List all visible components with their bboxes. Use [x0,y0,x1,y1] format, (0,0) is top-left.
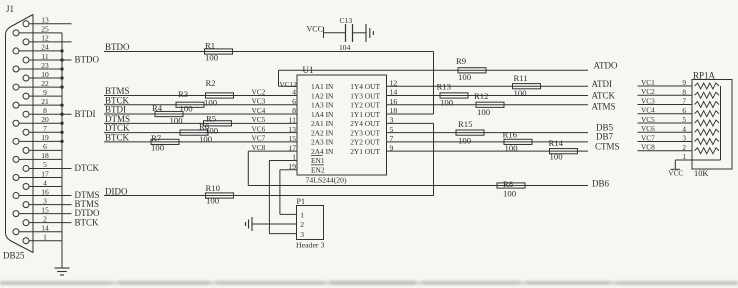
pin 16 (J1) [13,187,100,200]
resistor element 3 (RP1A) [695,102,720,108]
node ATCK [592,90,616,100]
svg-text:R14: R14 [549,138,564,148]
pin 7 (J1) [23,124,62,135]
svg-text:DIDO: DIDO [105,186,128,196]
pin number 4 (U1 left) [292,88,296,97]
label RP1A [693,71,716,81]
svg-text:100: 100 [505,143,519,153]
svg-text:15: 15 [41,205,49,214]
pin 18 (J1) [13,151,62,162]
pin text 2Y4 OUT (U1) [350,119,380,128]
net label BTCK [105,132,130,142]
header P1 body [297,206,324,240]
resistor R15 [456,130,484,135]
svg-text:ATDO: ATDO [594,61,618,71]
svg-text:100: 100 [170,116,184,126]
resistor R1 [205,49,233,54]
pin text EN1 (U1) [311,156,325,165]
junction at pin 24 [60,49,63,52]
net label VC7 [641,133,655,142]
label R14 [549,138,564,148]
svg-text:100: 100 [458,136,472,146]
svg-text:BTDO: BTDO [105,42,130,52]
svg-text:1: 1 [300,211,304,220]
node DB6 [592,179,610,189]
svg-text:100: 100 [503,189,517,199]
svg-text:VC3: VC3 [641,96,655,105]
svg-text:VC7: VC7 [641,133,655,142]
junction at pin 19 [60,140,63,143]
pin text 1Y3 OUT (U1) [350,91,380,100]
label R4 [152,103,163,113]
svg-text:13: 13 [41,16,49,25]
pin text 1A3 IN (U1) [311,101,334,110]
value 100 (R1) [205,53,219,63]
svg-text:100: 100 [458,72,472,82]
net label BTMS [105,86,130,96]
pin 4 (J1) [23,178,62,189]
resistor R8 [497,183,525,188]
resistor R2 [206,93,234,98]
pin number 11 (U1 left) [288,116,296,125]
svg-text:Header 3: Header 3 [296,240,324,249]
pin 13 (J1) [23,16,72,27]
svg-text:104: 104 [339,43,351,52]
wire BTCK to U1 [104,104,297,106]
wire RP1A pin1 to VCC [675,160,720,169]
wire 2Y1 to CTMS [387,150,589,152]
svg-text:1Y3 OUT: 1Y3 OUT [350,91,380,100]
wire 1Y2 to ATMS [387,104,589,106]
label R8 [503,179,514,189]
svg-text:R11: R11 [514,73,528,83]
svg-text:100: 100 [199,134,213,144]
connector J1 reference label [6,4,14,14]
net label VC4 [641,106,655,115]
pin 19 (J1) [13,133,62,144]
net label VC8 [641,143,655,152]
svg-text:1Y1 OUT: 1Y1 OUT [350,110,380,119]
value 100 (R13) [440,98,454,108]
junction at pin 7 [60,131,63,134]
pin number 1 (U1 left) [292,153,296,162]
wire VC5 to RP1A [638,122,693,124]
wire 1Y4 to ATDI [387,85,589,87]
svg-text:2Y3 OUT: 2Y3 OUT [350,128,380,137]
svg-text:BTDO: BTDO [75,55,100,65]
pin number 18 (U1 right) [390,106,398,115]
value 100 (R2) [204,97,218,107]
svg-text:J1: J1 [6,4,14,14]
resistor element 2 (RP1A) [695,92,720,98]
value 104 (C13) [339,43,351,52]
resistor R9 [458,68,486,73]
pin 15 (J1) [13,205,100,218]
pin text 1Y1 OUT (U1) [350,110,380,119]
resistor R13 [440,93,468,98]
svg-text:VC4: VC4 [641,106,655,115]
net label DIDO [105,186,128,196]
svg-text:VC2: VC2 [252,87,266,96]
svg-text:1A1 IN: 1A1 IN [311,82,334,91]
svg-text:4: 4 [682,124,686,133]
svg-text:R9: R9 [456,56,466,66]
value 100 (R11) [514,88,528,98]
svg-text:VC4: VC4 [252,106,266,115]
svg-text:R2: R2 [206,78,216,88]
svg-text:ATMS: ATMS [592,101,616,111]
resistor R10 [206,193,234,198]
wire V1 vertical (BTDO to 1Y1) [433,52,435,115]
wire 2Y4 to V2 [387,122,434,124]
net label BTDO [105,42,130,52]
wire VC12 rail / R9 wire to ATDO [279,69,589,71]
node DB5 [596,123,614,133]
svg-text:1Y4 OUT: 1Y4 OUT [350,82,380,91]
svg-text:5: 5 [682,115,686,124]
pin 5 (J1) [23,160,100,173]
resistor element 4 (RP1A) [695,111,720,117]
label R16 [503,130,518,140]
wire VC8 to RP1A [638,150,693,152]
junction at pin 21 [60,103,63,106]
svg-text:74LS244(20): 74LS244(20) [306,175,347,184]
svg-text:R15: R15 [458,119,472,129]
junction at pin 11 [60,58,63,61]
resistor element 6 (RP1A) [695,129,720,135]
pin 23 (J1) [13,61,62,72]
power port VCC (C13) [307,25,324,39]
svg-text:R4: R4 [152,103,163,113]
pin number 8 (RP1A) [682,87,686,96]
pin 8 (J1) [23,106,96,119]
pin number 7 (U1 right) [390,134,394,143]
pin text 2Y2 OUT (U1) [350,138,380,147]
svg-text:100: 100 [151,143,165,153]
value 100 (R4) [170,116,184,126]
wire VCC to C13 [324,32,346,34]
svg-text:2: 2 [43,214,47,223]
wire VC2 to RP1A [638,94,693,96]
pin number 4 (RP1A) [682,124,686,133]
svg-text:VC7: VC7 [252,134,266,143]
pin number 5 (U1 right) [390,125,394,134]
svg-text:2Y1 OUT: 2Y1 OUT [350,147,380,156]
node ATDO [594,61,618,71]
svg-text:VC8: VC8 [252,143,266,152]
svg-text:100: 100 [206,196,220,206]
svg-text:14: 14 [41,224,49,233]
svg-text:16: 16 [41,187,49,196]
ground symbol (P1) [246,217,253,231]
svg-text:3: 3 [43,196,47,205]
pin text 1A2 IN (U1) [311,91,334,100]
net label VC7 [252,134,266,143]
pin number 3 (U1 right) [390,116,394,125]
capacitor C13 [346,24,353,42]
resistor element 5 (RP1A) [695,120,720,126]
label U1 [303,65,314,75]
pin number 12 (U1 right) [390,78,398,87]
pin number 16 (U1 right) [390,97,398,106]
svg-text:100: 100 [550,152,564,162]
value 100 (R10) [206,196,220,206]
wire VC1 to RP1A [638,85,693,87]
value 74LS244(20) [306,175,347,184]
label R6 [199,122,210,132]
net label VC8 [252,143,266,152]
wire BTCK to U1 [104,141,297,143]
svg-text:9: 9 [682,78,686,87]
power port VCC (RP1A) [668,168,683,177]
svg-text:BTCK: BTCK [75,217,100,227]
value 100 (R5) [205,126,219,136]
svg-text:VCC: VCC [307,25,323,34]
pin text 2A3 IN (U1) [311,138,334,147]
junction at pin 10 [60,76,63,79]
underline 2A4 (U1) [311,155,323,157]
svg-text:VC2: VC2 [641,87,655,96]
svg-text:3: 3 [682,134,686,143]
svg-text:U1: U1 [303,65,314,75]
wire BTMS to U1 [104,94,297,96]
svg-text:4: 4 [43,178,47,187]
junction at pin 22 [60,85,63,88]
pin text 2A2 IN (U1) [311,128,334,137]
svg-text:21: 21 [41,97,49,106]
label R3 [178,89,188,99]
wire C13 to ground [353,32,367,34]
wire DTMS to U1 [104,122,297,124]
pin text 2Y1 OUT (U1) [350,147,380,156]
svg-text:2A1 IN: 2A1 IN [311,119,334,128]
pin 17 (J1) [13,169,62,180]
label R11 [514,73,528,83]
value 100 (R16) [505,143,519,153]
wire DTCK to U1 [104,132,297,134]
label DB25 [3,251,25,261]
pin 2 (P1) [300,220,304,229]
svg-text:6: 6 [682,106,686,115]
pin number 19 (U1 left) [288,162,296,171]
net label VC3 [252,97,266,106]
wire 2Y3 to DB5 [387,132,589,134]
label R5 [206,113,216,123]
net label VC3 [641,96,655,105]
svg-text:R12: R12 [474,91,488,101]
svg-text:VC5: VC5 [641,115,655,124]
resistor R7 [151,139,179,144]
label R1 [205,41,215,51]
wire 2Y2 to DB7 [387,141,589,143]
pin number 3 (RP1A) [682,134,686,143]
svg-text:R1: R1 [205,41,215,51]
net label VC2 [252,87,266,96]
label C13 [340,16,353,25]
junction at pin 8 [60,113,63,116]
value 10K (RP1A) [694,169,708,178]
pin number 13 (U1 left) [288,125,296,134]
resistor element 8 (RP1A) [695,148,720,154]
svg-text:EN2: EN2 [311,166,325,175]
svg-text:17: 17 [41,169,49,178]
wire V2 vertical (2Y4 to R10 line) [433,123,435,195]
net label VC5 [252,115,266,124]
svg-text:DTCK: DTCK [75,163,100,173]
svg-text:2A4 IN: 2A4 IN [311,147,334,156]
svg-text:7: 7 [682,97,686,106]
pin number 17 (U1 left) [288,143,296,152]
svg-text:1A3 IN: 1A3 IN [311,101,334,110]
junction at pin 20 [60,122,63,125]
svg-text:8: 8 [43,106,47,115]
svg-text:1A2 IN: 1A2 IN [311,91,334,100]
net label VC6 [252,124,266,133]
wire VC8 (U1 pin17 to R8 line) [248,151,297,185]
value 100 (R9) [458,72,472,82]
svg-text:R7: R7 [151,133,162,143]
svg-text:R8: R8 [503,179,514,189]
scan artifact band [0,281,738,286]
svg-text:23: 23 [41,61,49,70]
pin 11 (J1) [23,52,100,65]
svg-text:100: 100 [440,98,454,108]
pin text EN2 (U1) [311,166,325,175]
svg-text:CTMS: CTMS [595,141,620,151]
pin 24 (J1) [13,43,62,54]
pin 20 (J1) [13,115,62,126]
svg-text:6: 6 [43,142,47,151]
value 100 (R8) [503,189,517,199]
pin text 2Y3 OUT (U1) [350,128,380,137]
svg-text:2Y4 OUT: 2Y4 OUT [350,119,380,128]
svg-text:BTDI: BTDI [75,109,96,119]
svg-text:DB6: DB6 [592,179,610,189]
svg-text:R10: R10 [206,183,221,193]
DB25 connector shell [6,15,34,253]
wire VC12 drop to U1 pin 2 [279,70,298,86]
svg-text:ATDI: ATDI [592,79,613,89]
value Header 3 [296,240,324,249]
pin number 15 (U1 left) [288,134,296,143]
op-amp-buffer U1 74LS244 body [297,75,387,175]
pin 10 (J1) [23,70,62,81]
ground bus wire (J1) [61,33,63,268]
ground symbol (C13) [366,24,373,42]
node DB7 [596,131,614,141]
pin number 8 (U1 left) [292,106,296,115]
net label DTMS [105,114,130,124]
pin number 6 (U1 left) [292,97,296,106]
pin text 1Y2 OUT (U1) [350,101,380,110]
svg-text:R13: R13 [437,82,451,92]
value 100 (R12) [477,107,491,117]
svg-text:18: 18 [41,151,49,160]
net label BTCK [105,95,130,105]
svg-text:5: 5 [43,160,47,169]
net label VC2 [641,87,655,96]
pin 9 (J1) [23,88,62,99]
pin 14 (J1) [13,224,62,235]
net label VC5 [641,115,655,124]
svg-text:1A4 IN: 1A4 IN [311,110,334,119]
svg-text:C13: C13 [340,16,353,25]
resistor R14 [550,149,578,154]
label R9 [456,56,466,66]
net label VC1 [641,78,655,87]
svg-text:DB7: DB7 [596,131,614,141]
svg-text:ATCK: ATCK [592,90,616,100]
wire BTDO (pin11 net to R1 to V1) [104,51,434,53]
resistor R11 [513,84,541,89]
wire BTDI to U1 [104,113,297,115]
svg-text:VC1: VC1 [641,78,655,87]
label R7 [151,133,162,143]
wire EN1 to P1 pin3 [269,160,297,233]
label R15 [458,119,472,129]
svg-text:11: 11 [41,52,48,61]
pin number 9 (U1 right) [390,143,394,152]
wire VC3 to RP1A [638,104,693,106]
svg-text:VC5: VC5 [252,115,266,124]
pin number 9 (RP1A) [682,78,686,87]
svg-text:10: 10 [41,70,49,79]
value 100 (R3) [180,103,194,113]
svg-text:22: 22 [41,79,49,88]
svg-text:12: 12 [41,34,49,43]
svg-text:1: 1 [43,233,47,242]
node CTMS [595,141,620,151]
svg-text:2: 2 [300,220,304,229]
svg-text:R6: R6 [199,122,210,132]
pin number 5 (RP1A) [682,115,686,124]
svg-text:100: 100 [477,107,491,117]
node ATMS [592,101,616,111]
svg-text:VC6: VC6 [252,124,266,133]
pin 12 (J1) [23,34,72,45]
resistor R5 [204,121,232,126]
pin 3 (P1) [300,230,304,239]
label R12 [474,91,488,101]
svg-text:RP1A: RP1A [693,71,716,81]
wire VC7 to RP1A [638,141,693,143]
pin 1 (RP1A common) [682,152,686,161]
svg-text:2A2 IN: 2A2 IN [311,128,334,137]
svg-text:VC6: VC6 [641,124,655,133]
svg-text:P1: P1 [297,197,305,206]
pin 21 (J1) [13,97,62,108]
svg-text:100: 100 [204,97,218,107]
wire 1Y1 to V1 [387,113,434,115]
ground symbol (J1 bus) [55,268,70,275]
svg-text:25: 25 [41,25,49,34]
pin 1 (J1) [23,233,62,244]
svg-text:3: 3 [300,230,304,239]
resistor R4 [155,111,183,116]
resistor element 7 (RP1A) [695,139,720,145]
svg-text:9: 9 [43,88,47,97]
pin 22 (J1) [13,79,62,90]
svg-text:VC3: VC3 [252,97,266,106]
pin number 14 (U1 right) [390,88,398,97]
pin 2 (J1) [23,214,99,227]
svg-text:24: 24 [41,43,49,52]
svg-text:VCC: VCC [668,168,683,177]
net label BTDI [105,105,126,115]
value 100 (R15) [458,136,472,146]
resistor R16 [504,139,532,144]
resistor R6 [180,130,208,135]
